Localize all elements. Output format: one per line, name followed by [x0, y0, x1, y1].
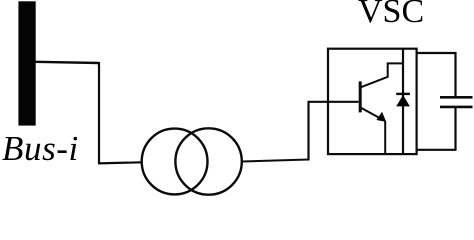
transformer T1 primary winding: [142, 129, 208, 195]
wire box top to capacitor: [417, 53, 456, 96]
transformer T1 secondary winding: [175, 128, 241, 194]
wire transformer to riser: [242, 160, 309, 162]
diode D1 branch wire: [402, 49, 404, 154]
wire riser up: [307, 102, 309, 161]
transistor Q1 collector path: [360, 63, 403, 87]
capacitor C1 top plate: [440, 96, 473, 99]
VSC box U1: [328, 49, 417, 154]
wire bus to corner: [36, 62, 100, 63]
transistor Q1 emitter path: [360, 107, 381, 119]
label VSC: [358, 0, 424, 31]
wire into VSC box (gate lead): [308, 101, 359, 103]
label Bus-i: [2, 129, 79, 169]
diode D1 cathode bar: [396, 93, 410, 95]
wire capacitor bottom to box: [417, 108, 456, 150]
transistor Q1 base bar: [359, 81, 362, 112]
diode D1 triangle: [396, 95, 410, 106]
transistor Q1 emitter arrowhead: [376, 112, 386, 122]
wire corner down: [98, 62, 100, 163]
transistor Q1 emitter down lead: [384, 121, 386, 154]
wire to transformer left: [98, 162, 142, 163]
bus bar Bus-i: [18, 1, 35, 125]
capacitor C1 bottom plate: [440, 106, 473, 109]
